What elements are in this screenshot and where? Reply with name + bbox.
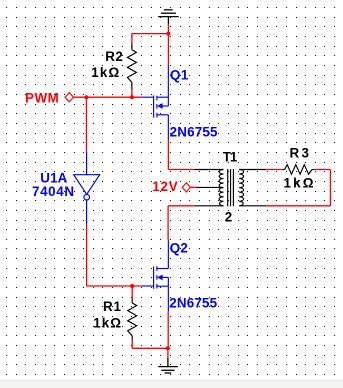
svg-text:Q2: Q2 [170, 240, 188, 255]
junction R1 top [130, 284, 134, 288]
svg-text:PWM: PWM [25, 91, 59, 106]
transistor Q1 (2N6755, flipped) [142, 65, 169, 140]
wire bottom horizontal to ground junction [132, 347, 168, 349]
svg-text:7404N: 7404N [32, 184, 74, 199]
wire Q1 source down to transformer corner [167, 140, 169, 170]
wire Q2 source down [167, 312, 169, 349]
svg-text:1kΩ: 1kΩ [91, 65, 119, 80]
resistor R3 [282, 165, 314, 175]
junction bottom ground node [166, 346, 170, 350]
bottom status strip [0, 380, 343, 388]
svg-text:2: 2 [225, 210, 232, 225]
wire junction to ground stem [167, 348, 169, 358]
junction node A [166, 32, 170, 36]
wire 12V stub [190, 186, 196, 188]
svg-text:12V: 12V [152, 179, 177, 194]
svg-text:T1: T1 [223, 149, 238, 164]
resistor R1 [128, 298, 137, 341]
wire U1A output to Q2 gate row [87, 285, 142, 287]
node 12V diamond [182, 183, 190, 192]
wire U1A output down [86, 225, 88, 286]
node PWM diamond [65, 93, 74, 102]
transistor Q2 (2N6755) [142, 240, 169, 312]
transformer T1 [194, 169, 266, 206]
wire T1 bottom-left corner to Q2 drain [168, 205, 194, 207]
wire R2 top vertical drop [131, 33, 133, 44]
ground GND2 (bottom) [158, 358, 178, 373]
wire ground-top stem to node A [167, 24, 169, 33]
wire R1 bottom drop [131, 341, 133, 349]
svg-text:1kΩ: 1kΩ [284, 175, 314, 190]
op-amp U1A 7404N inverter (pointing down) [74, 152, 100, 225]
svg-text:2N6755: 2N6755 [170, 124, 218, 139]
junction PWM/U1A branch [84, 95, 88, 99]
ground GND1 (top, pointing up) [158, 10, 179, 25]
resistor R2 [127, 44, 136, 90]
wire R2 bottom stub [131, 90, 133, 98]
svg-text:1kΩ: 1kΩ [93, 316, 121, 331]
Q2 body arrow [157, 275, 162, 281]
wire node A down to Q1 source stub [167, 34, 169, 65]
wire down to Q2 [167, 206, 169, 240]
wire right vertical down [329, 170, 331, 206]
junction R2 bottom [130, 95, 134, 99]
wire node A to R2 top (horizontal) [132, 33, 169, 35]
svg-text:Q1: Q1 [170, 68, 189, 83]
Q1 body arrow [157, 103, 162, 109]
wire PWM row horizontal [74, 96, 142, 98]
wire U1A input drop [85, 97, 87, 151]
svg-text:2N6755: 2N6755 [169, 296, 217, 311]
wire bottom back to T1 bottom-right [266, 205, 330, 207]
svg-text:R1: R1 [103, 299, 122, 314]
svg-text:R2: R2 [105, 49, 123, 64]
wire R3 right to corner [315, 169, 331, 171]
wire R1 top stub [131, 286, 133, 298]
wire corner to T1 top-left pin [168, 169, 194, 171]
wire T1 top-right to R3 [266, 169, 282, 171]
